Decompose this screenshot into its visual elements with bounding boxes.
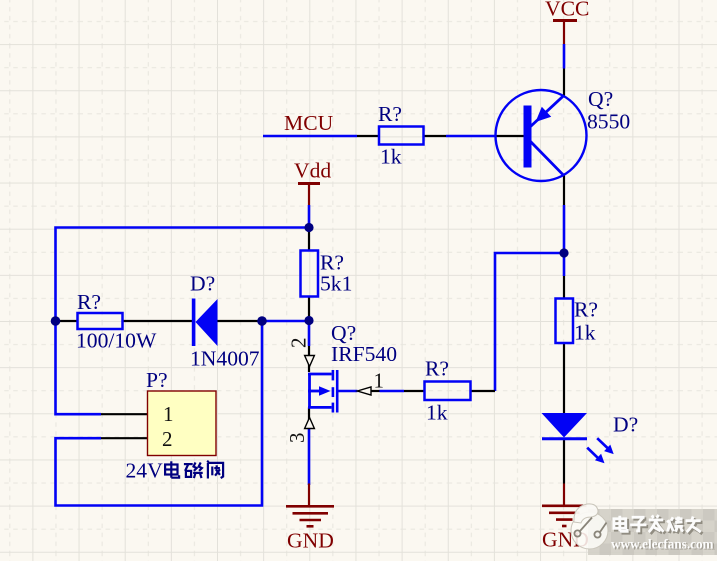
svg-text:2: 2	[287, 338, 311, 349]
svg-text:1: 1	[163, 402, 174, 426]
svg-text:R?: R?	[574, 298, 598, 322]
svg-text:IRF540: IRF540	[331, 342, 397, 366]
svg-text:P?: P?	[146, 368, 168, 392]
svg-text:100/10W: 100/10W	[76, 329, 157, 353]
svg-text:GND: GND	[287, 529, 334, 553]
svg-text:5k1: 5k1	[320, 272, 352, 296]
svg-text:R?: R?	[77, 290, 101, 314]
svg-text:1N4007: 1N4007	[190, 347, 260, 371]
svg-text:8550: 8550	[587, 109, 630, 133]
svg-text:MCU: MCU	[284, 111, 334, 135]
svg-text:www.elecfans.com: www.elecfans.com	[611, 537, 714, 552]
svg-text:R?: R?	[425, 357, 449, 381]
svg-text:R?: R?	[378, 102, 402, 126]
svg-text:3: 3	[285, 433, 309, 444]
svg-text:2: 2	[162, 427, 173, 451]
svg-text:24V: 24V	[126, 459, 164, 483]
svg-text:D?: D?	[613, 413, 638, 437]
svg-text:1k: 1k	[380, 145, 402, 169]
svg-text:D?: D?	[190, 272, 215, 296]
svg-text:1: 1	[374, 369, 385, 393]
svg-text:Q?: Q?	[588, 87, 613, 111]
svg-text:1k: 1k	[574, 321, 596, 345]
svg-text:1k: 1k	[426, 401, 448, 425]
svg-text:VCC: VCC	[545, 0, 589, 21]
svg-text:Vdd: Vdd	[294, 159, 331, 183]
